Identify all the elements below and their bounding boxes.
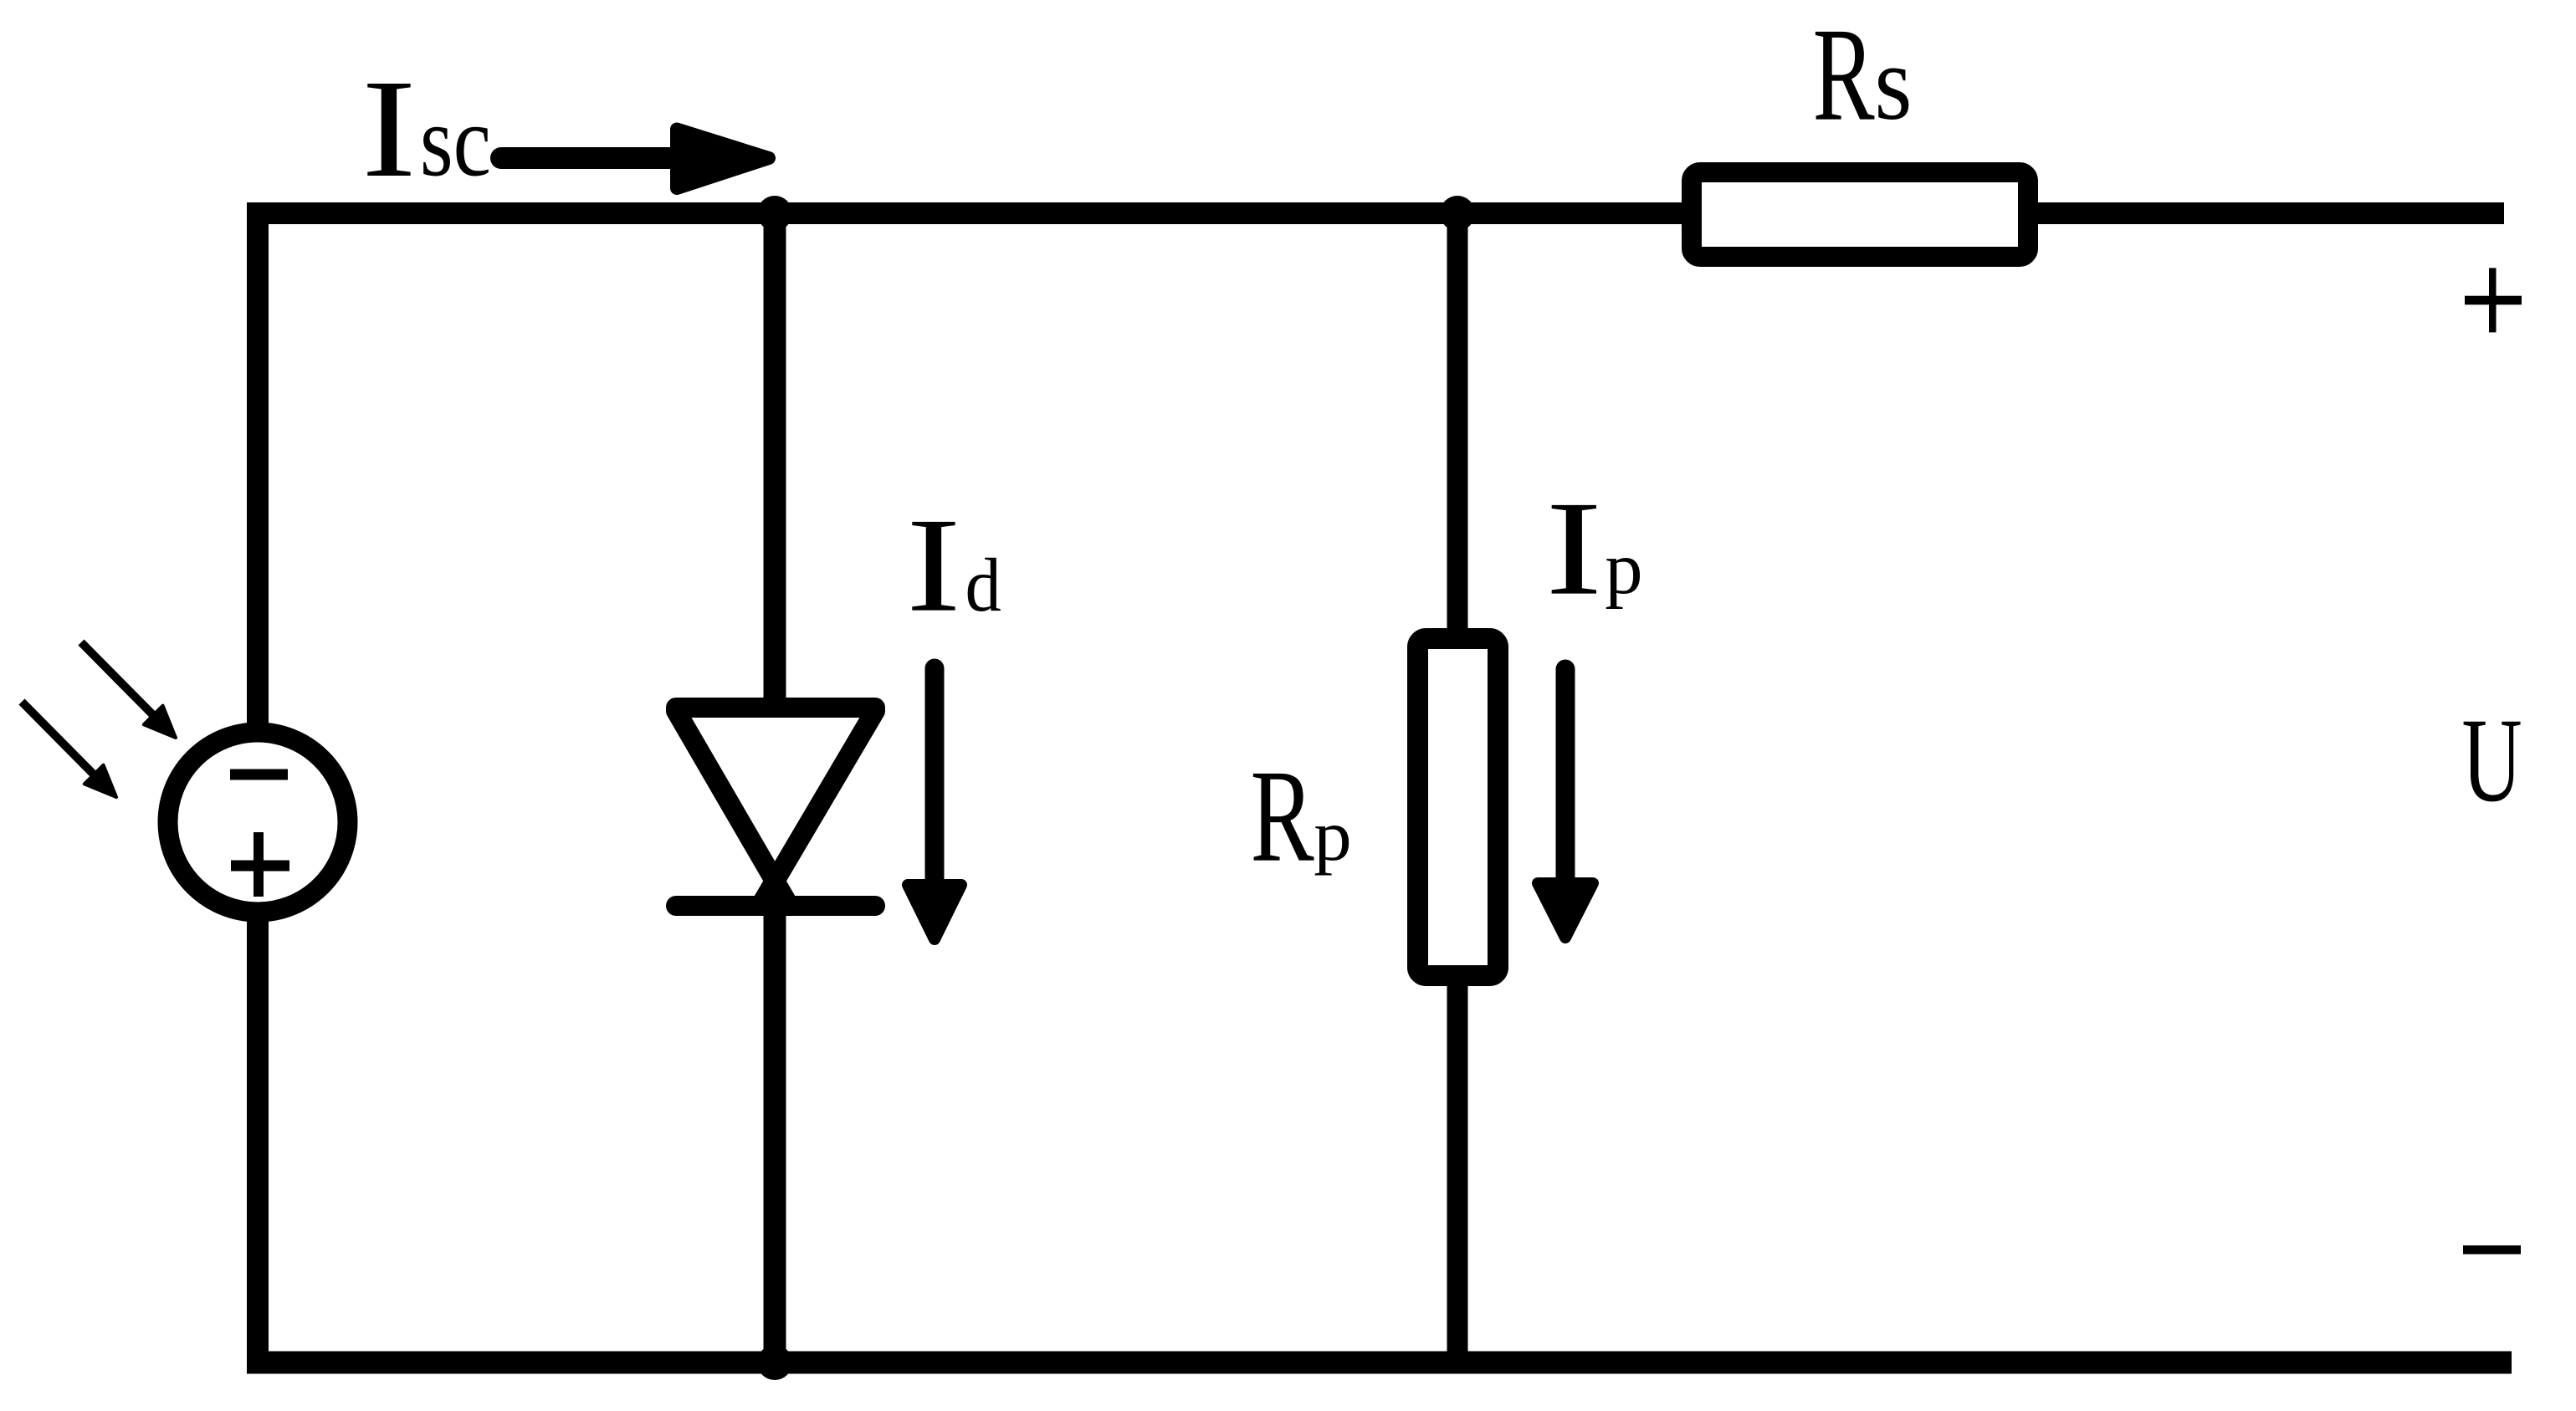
label Id (906, 490, 1001, 640)
node C bottom diode junction (757, 1345, 792, 1380)
current source photocurrent circle (168, 733, 348, 913)
resistor Rp body (1418, 639, 1498, 976)
label Rp (1251, 742, 1352, 889)
current source minus sign (230, 769, 288, 780)
wire top bus (247, 202, 2504, 224)
wire left branch upper (247, 202, 269, 740)
wire bottom bus (247, 1352, 2512, 1374)
wire Rp branch lower (1447, 970, 1468, 1362)
label Rs (1813, 0, 1913, 148)
current arrow Id (908, 668, 961, 939)
current arrow Isc (501, 130, 769, 189)
svg-text:U: U (2462, 693, 2522, 826)
wire Rp branch upper (1447, 213, 1468, 644)
svg-text:R: R (1813, 0, 1875, 148)
wire left branch lower (247, 904, 269, 1373)
node B top Rp junction (1440, 196, 1475, 231)
svg-text:d: d (965, 544, 1001, 627)
wire diode branch lower (764, 878, 786, 1362)
svg-text:R: R (1251, 742, 1314, 889)
wire diode branch upper (764, 213, 786, 716)
svg-text:p: p (1605, 528, 1642, 610)
label plus terminal (2465, 268, 2522, 332)
label minus terminal (2463, 1245, 2521, 1255)
svg-text:sc: sc (420, 85, 491, 197)
node A top diode junction (757, 196, 792, 231)
current arrow Ip (1538, 669, 1593, 938)
label Isc (361, 51, 491, 207)
svg-text:I: I (361, 51, 416, 207)
svg-text:s: s (1874, 25, 1912, 142)
diode D1 (676, 708, 875, 906)
svg-text:p: p (1314, 796, 1351, 877)
resistor Rs body (1692, 172, 2028, 257)
current source plus sign (231, 832, 289, 897)
svg-text:I: I (1545, 473, 1602, 623)
svg-text:I: I (906, 490, 960, 640)
light arrow 1 (81, 642, 176, 738)
light arrow 2 (22, 702, 116, 797)
label Ip (1545, 473, 1642, 623)
